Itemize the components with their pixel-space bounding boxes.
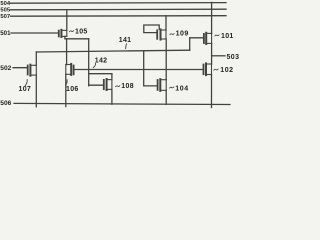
node 142 vertical wire [88, 39, 90, 86]
wire 501 to gate of 105 [11, 32, 59, 34]
wire source 101 to drain 102 [211, 43, 213, 64]
tilde 102 [214, 69, 218, 70]
wire gate line from 106 to gate of 102 [74, 69, 204, 71]
transistor 106 (mirrored, gate right) [66, 64, 74, 75]
leader for label 141 [125, 44, 128, 49]
svg-text:108: 108 [121, 83, 134, 90]
wire node 142 drop to drain 106 [66, 39, 68, 65]
svg-text:141: 141 [119, 37, 132, 44]
tilde 108 [116, 86, 120, 87]
wire source 104 to rail 506 [165, 90, 167, 104]
svg-text:107: 107 [19, 86, 32, 93]
node 141 horizontal wire [36, 50, 189, 52]
svg-text:106: 106 [66, 86, 79, 93]
svg-text:105: 105 [75, 29, 88, 36]
transistor 101 [204, 33, 212, 44]
transistor 105 [59, 30, 67, 37]
tilde 105 [69, 31, 73, 32]
wire source 109 to drain 104 [165, 39, 167, 80]
svg-text:503: 503 [227, 54, 240, 61]
wire node141 down to drain 107 [35, 52, 37, 65]
wire 502 to gate of 107 [13, 67, 28, 69]
svg-text:504: 504 [0, 1, 10, 7]
transistor 107 [28, 65, 37, 76]
svg-text:502: 502 [0, 65, 11, 72]
rail 506 [14, 103, 230, 104]
svg-text:506: 506 [0, 100, 11, 107]
rail 505 [11, 8, 227, 11]
wire node141 up to gate of 101 [190, 38, 204, 50]
wire 108 diode loop top [89, 73, 112, 75]
svg-text:142: 142 [95, 57, 108, 64]
wire source 102 to rail 506 [211, 75, 213, 108]
tilde 101 [215, 35, 219, 36]
wire 109 diode loop [144, 25, 159, 33]
svg-text:501: 501 [0, 30, 11, 37]
leader for label 142 [93, 63, 95, 67]
wire source 108 to rail 506 [111, 89, 113, 104]
rail 507 [11, 15, 227, 18]
svg-text:101: 101 [221, 33, 234, 40]
transistor 104 [158, 79, 167, 91]
wire source 107 to rail 506 [35, 75, 37, 107]
wire source 105 jog [65, 36, 89, 38]
rail 504 [11, 2, 227, 5]
svg-text:109: 109 [176, 31, 189, 38]
svg-text:505: 505 [0, 8, 10, 14]
wire drain 101 to rail 504 [211, 2, 213, 33]
transistor 108 [104, 79, 112, 90]
leader for label 107 [25, 80, 27, 86]
wire loop down to drain 108 [111, 74, 113, 80]
wire drain 109 to rail 507 [165, 16, 167, 30]
svg-text:102: 102 [220, 67, 233, 74]
tilde 109 [170, 34, 174, 35]
wire gate lead 108 [89, 84, 104, 86]
svg-text:104: 104 [175, 85, 188, 92]
transistor 102 [204, 63, 212, 75]
wire node 503 stub [212, 55, 225, 57]
wire drain 105 to rail 505 [66, 10, 68, 31]
wire node141 down to gate of 104 [144, 52, 158, 86]
wire source 106 to rail 506 [65, 74, 67, 106]
transistor 109 [157, 29, 166, 39]
svg-text:507: 507 [0, 14, 10, 20]
leader for label 106 [66, 80, 68, 85]
tilde 104 [170, 87, 174, 88]
